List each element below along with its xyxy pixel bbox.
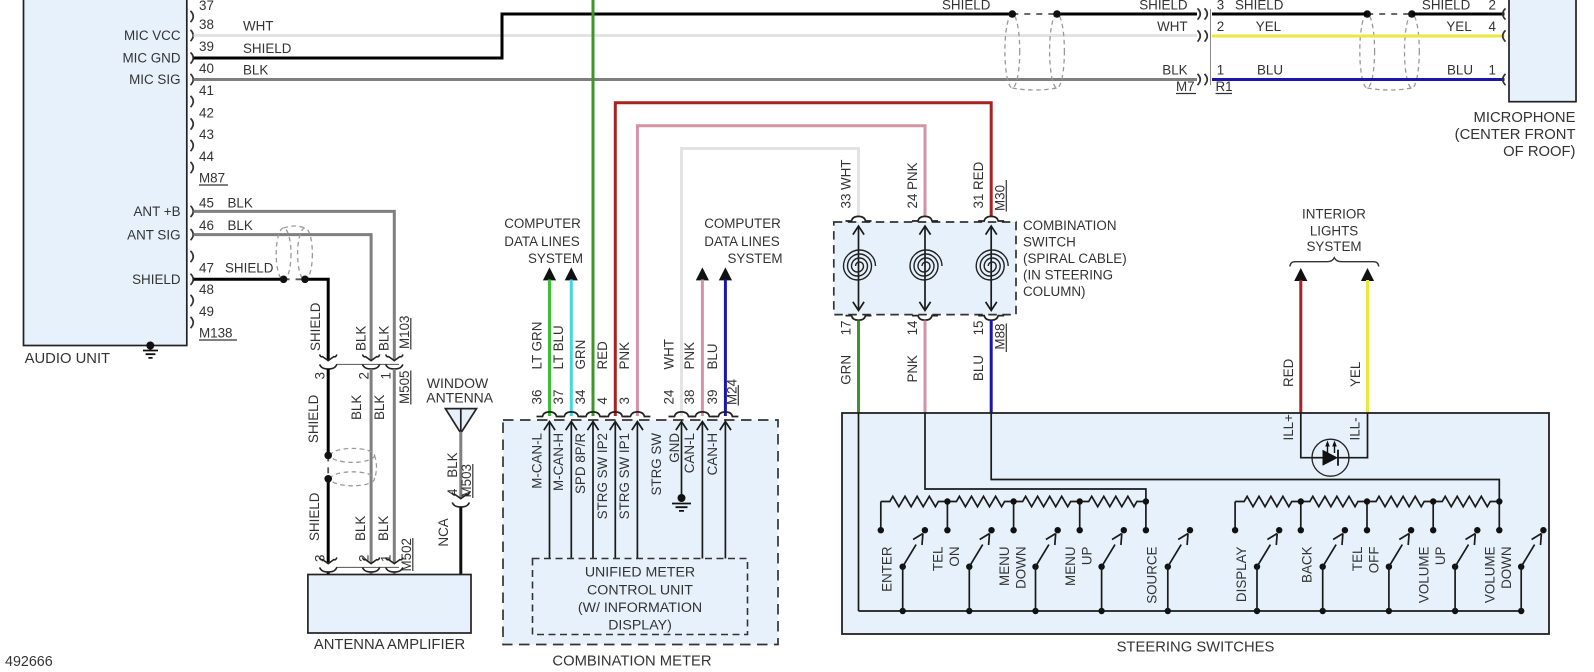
switch VOLUME DOWN bbox=[1496, 527, 1502, 533]
window antenna symbol bbox=[445, 409, 476, 434]
LED diode symbol bbox=[1323, 450, 1339, 466]
wire RED pin4 to combination switch pin31 bbox=[615, 103, 991, 416]
svg-text:RED: RED bbox=[1281, 358, 1296, 387]
wire BLK M505 to M502 pin1 bbox=[393, 369, 396, 563]
switch TEL OFF bbox=[1364, 527, 1370, 533]
LED circle bbox=[1312, 439, 1349, 476]
svg-text:CAN-L: CAN-L bbox=[682, 433, 697, 473]
shield twist symbol vertical at antenna amp bbox=[331, 448, 375, 462]
microphone box bbox=[1509, 0, 1576, 102]
svg-text:COMBINATION METER: COMBINATION METER bbox=[552, 654, 711, 670]
wire SHIELD from pin 39 up and right to M7 bbox=[194, 14, 1014, 58]
svg-text:3: 3 bbox=[1217, 0, 1224, 13]
svg-text:PNK: PNK bbox=[905, 162, 920, 190]
svg-text:BLU: BLU bbox=[705, 343, 720, 369]
PNK feed to left resistor chain bbox=[925, 413, 1146, 502]
bottom bus wire bbox=[859, 610, 1522, 612]
svg-text:VOLUME: VOLUME bbox=[1416, 546, 1431, 603]
svg-text:SHIELD: SHIELD bbox=[1139, 0, 1188, 13]
svg-text:(CENTER FRONT: (CENTER FRONT bbox=[1455, 127, 1576, 143]
shield twist symbol right pair bbox=[1360, 14, 1375, 88]
combination meter internal wires and arrows bbox=[549, 422, 551, 559]
svg-text:M-CAN-H: M-CAN-H bbox=[551, 433, 566, 491]
svg-text:CAN-H: CAN-H bbox=[705, 433, 720, 475]
svg-text:(IN STEERING: (IN STEERING bbox=[1023, 268, 1113, 283]
switch ENTER bbox=[878, 527, 884, 533]
svg-text:DATA LINES: DATA LINES bbox=[704, 234, 779, 249]
svg-text:MIC GND: MIC GND bbox=[122, 51, 180, 66]
svg-text:UP: UP bbox=[1433, 546, 1448, 565]
svg-text:BLK: BLK bbox=[228, 196, 253, 211]
svg-text:GRN: GRN bbox=[573, 340, 588, 370]
right resistor chain start bbox=[1234, 502, 1236, 531]
connector M7/R1 bbox=[1198, 8, 1201, 19]
switch VOLUME UP bbox=[1430, 527, 1436, 533]
svg-text:36: 36 bbox=[529, 390, 544, 405]
svg-text:STEERING SWITCHES: STEERING SWITCHES bbox=[1117, 640, 1275, 656]
svg-text:BLK: BLK bbox=[349, 395, 364, 420]
svg-text:BLK: BLK bbox=[1162, 63, 1187, 78]
svg-text:BACK: BACK bbox=[1300, 546, 1315, 583]
arrow to computer data lines BLU bbox=[719, 267, 732, 280]
svg-text:COMPUTER: COMPUTER bbox=[504, 216, 581, 231]
svg-text:VOLUME: VOLUME bbox=[1483, 546, 1498, 603]
svg-text:1: 1 bbox=[378, 372, 393, 379]
GRN feed into bottom bus bbox=[858, 413, 860, 611]
svg-text:SHIELD: SHIELD bbox=[243, 41, 292, 56]
svg-text:PNK: PNK bbox=[617, 342, 632, 370]
svg-text:SHIELD: SHIELD bbox=[1422, 0, 1471, 13]
wire PNK pin38 bbox=[701, 280, 704, 417]
svg-text:492666: 492666 bbox=[5, 654, 53, 670]
svg-text:UNIFIED METER: UNIFIED METER bbox=[585, 565, 695, 581]
svg-text:BLK: BLK bbox=[353, 516, 368, 541]
wire YEL to interior lights bbox=[1366, 280, 1369, 413]
svg-text:2: 2 bbox=[356, 372, 371, 379]
svg-text:OFF: OFF bbox=[1367, 547, 1382, 574]
svg-text:SHIELD: SHIELD bbox=[225, 261, 274, 276]
svg-text:SHIELD: SHIELD bbox=[942, 0, 991, 13]
svg-text:INTERIOR: INTERIOR bbox=[1302, 207, 1366, 222]
svg-text:M7: M7 bbox=[1176, 79, 1195, 94]
resistor R4 bbox=[1080, 496, 1146, 506]
svg-text:M-CAN-L: M-CAN-L bbox=[529, 433, 544, 489]
svg-text:DATA LINES: DATA LINES bbox=[504, 234, 579, 249]
svg-text:SHIELD: SHIELD bbox=[308, 302, 323, 351]
svg-text:COLUMN): COLUMN) bbox=[1023, 284, 1086, 299]
svg-text:SYSTEM: SYSTEM bbox=[528, 251, 583, 266]
wire BLK from pin 46 bbox=[194, 235, 372, 361]
svg-text:37: 37 bbox=[199, 0, 214, 13]
svg-text:WHT: WHT bbox=[1157, 19, 1188, 34]
svg-text:38: 38 bbox=[199, 17, 214, 32]
arrow to computer data lines PNK bbox=[696, 267, 709, 280]
wire YEL R1 to microphone bbox=[1212, 35, 1505, 38]
svg-text:OF ROOF): OF ROOF) bbox=[1503, 144, 1575, 160]
svg-text:PNK: PNK bbox=[682, 342, 697, 370]
wire BLK M505 to M502 pin2 bbox=[370, 369, 373, 563]
svg-text:M503: M503 bbox=[459, 464, 474, 498]
switch DISPLAY bbox=[1232, 527, 1238, 533]
svg-text:GRN: GRN bbox=[838, 355, 853, 385]
svg-text:17: 17 bbox=[838, 321, 853, 336]
svg-text:(SPIRAL CABLE): (SPIRAL CABLE) bbox=[1023, 251, 1127, 266]
svg-text:1: 1 bbox=[1217, 63, 1224, 78]
wire LT GRN pin36 bbox=[548, 280, 551, 417]
wire GRN pin34 vertical bbox=[592, 0, 595, 416]
svg-text:TEL: TEL bbox=[1350, 547, 1365, 572]
switch TEL ON bbox=[944, 527, 950, 533]
svg-text:1: 1 bbox=[1489, 63, 1496, 78]
svg-text:43: 43 bbox=[199, 127, 214, 142]
svg-text:M505: M505 bbox=[397, 371, 412, 405]
svg-text:WHT: WHT bbox=[243, 19, 274, 34]
svg-text:MIC VCC: MIC VCC bbox=[124, 28, 181, 43]
svg-text:YEL: YEL bbox=[1446, 19, 1471, 34]
svg-text:42: 42 bbox=[199, 106, 214, 121]
svg-text:DISPLAY: DISPLAY bbox=[1234, 546, 1249, 602]
svg-text:SYSTEM: SYSTEM bbox=[727, 251, 782, 266]
svg-text:BLK: BLK bbox=[243, 63, 268, 78]
svg-text:RED: RED bbox=[971, 161, 986, 190]
unified meter control unit box bbox=[533, 559, 748, 635]
svg-text:M88: M88 bbox=[992, 324, 1007, 350]
svg-text:SHIELD: SHIELD bbox=[306, 394, 321, 443]
svg-text:ENTER: ENTER bbox=[880, 546, 895, 592]
arrow interior lights RED bbox=[1294, 268, 1307, 281]
svg-text:DOWN: DOWN bbox=[1499, 547, 1514, 589]
svg-text:BLU: BLU bbox=[1257, 63, 1283, 78]
svg-text:2: 2 bbox=[1217, 19, 1224, 34]
ILL- wire to yellow bbox=[1338, 413, 1368, 458]
svg-text:SWITCH: SWITCH bbox=[1023, 235, 1076, 250]
svg-text:44: 44 bbox=[199, 149, 214, 164]
wire GRN M88 to steering switches bbox=[857, 321, 860, 413]
ground symbol at audio unit bbox=[146, 342, 154, 350]
svg-text:BLK: BLK bbox=[353, 326, 368, 351]
svg-text:STRG SW IP1: STRG SW IP1 bbox=[617, 433, 632, 519]
svg-text:24: 24 bbox=[905, 193, 920, 208]
svg-text:COMBINATION: COMBINATION bbox=[1023, 218, 1117, 233]
svg-text:COMPUTER: COMPUTER bbox=[704, 216, 781, 231]
svg-text:ON: ON bbox=[947, 547, 962, 567]
shield twist symbol at antenna wires bbox=[276, 228, 291, 280]
svg-text:4: 4 bbox=[1489, 19, 1497, 34]
steering switches box bbox=[842, 413, 1549, 634]
svg-text:LIGHTS: LIGHTS bbox=[1310, 224, 1358, 239]
ILL+ wire red into LED bbox=[1301, 413, 1312, 458]
svg-text:ANT SIG: ANT SIG bbox=[127, 227, 180, 242]
combination switch box bbox=[834, 222, 1016, 315]
svg-text:41: 41 bbox=[199, 83, 214, 98]
brace over interior lights arrows bbox=[1290, 258, 1379, 267]
wire SHIELD M505 to M502 bbox=[327, 369, 330, 455]
connector M502 bbox=[336, 566, 399, 568]
svg-text:49: 49 bbox=[199, 304, 214, 319]
resistor R5 bbox=[1235, 496, 1301, 506]
svg-text:LT GRN: LT GRN bbox=[529, 322, 544, 370]
svg-text:MENU: MENU bbox=[997, 547, 1012, 586]
svg-text:37: 37 bbox=[551, 390, 566, 405]
svg-text:CONTROL UNIT: CONTROL UNIT bbox=[587, 583, 693, 599]
svg-text:47: 47 bbox=[199, 261, 214, 276]
shield twist symbol left pair bbox=[1005, 14, 1020, 88]
svg-text:UP: UP bbox=[1079, 546, 1094, 565]
svg-text:31: 31 bbox=[971, 194, 986, 209]
svg-text:BLK: BLK bbox=[372, 395, 387, 420]
resistor R1 bbox=[881, 496, 948, 506]
svg-text:3: 3 bbox=[312, 372, 327, 379]
wire BLU R1 to microphone bbox=[1212, 78, 1505, 81]
svg-text:SPD 8P/R: SPD 8P/R bbox=[573, 433, 588, 494]
svg-text:R1: R1 bbox=[1216, 79, 1233, 94]
wire RED to interior lights bbox=[1299, 280, 1302, 413]
svg-text:40: 40 bbox=[199, 61, 214, 76]
svg-text:34: 34 bbox=[573, 389, 588, 404]
wire BLU M88 to steering switches bbox=[990, 321, 993, 413]
antenna amplifier box bbox=[308, 575, 471, 634]
ground symbol in combination meter bbox=[678, 494, 686, 502]
svg-text:48: 48 bbox=[199, 282, 214, 297]
svg-text:38: 38 bbox=[682, 390, 697, 405]
svg-text:BLK: BLK bbox=[445, 452, 460, 477]
wire BLK from pin 45 bbox=[194, 211, 395, 360]
svg-text:ANTENNA: ANTENNA bbox=[426, 389, 494, 405]
unnumbered pin arc bbox=[191, 251, 194, 262]
chain node drops bbox=[946, 502, 948, 531]
svg-text:M103: M103 bbox=[397, 316, 412, 350]
svg-text:STRG SW: STRG SW bbox=[649, 433, 664, 496]
svg-text:BLU: BLU bbox=[1447, 63, 1473, 78]
svg-text:DISPLAY): DISPLAY) bbox=[608, 618, 672, 634]
combination meter box bbox=[503, 420, 778, 645]
resistor R7 bbox=[1367, 496, 1433, 506]
svg-text:33: 33 bbox=[838, 194, 853, 209]
svg-text:ILL+: ILL+ bbox=[1281, 414, 1296, 441]
wire NCA M503 to antenna amplifier bbox=[459, 507, 462, 575]
svg-text:BLK: BLK bbox=[228, 218, 253, 233]
svg-text:ANTENNA AMPLIFIER: ANTENNA AMPLIFIER bbox=[314, 637, 465, 653]
svg-text:TEL: TEL bbox=[931, 547, 946, 572]
svg-text:DOWN: DOWN bbox=[1013, 547, 1028, 589]
svg-text:SHIELD: SHIELD bbox=[1235, 0, 1284, 13]
svg-text:M138: M138 bbox=[199, 326, 233, 341]
wire BLU pin39 bbox=[724, 280, 727, 417]
connector M505/M103 bbox=[336, 363, 399, 365]
svg-text:(W/ INFORMATION: (W/ INFORMATION bbox=[578, 600, 702, 616]
svg-text:LT BLU: LT BLU bbox=[551, 325, 566, 369]
spiral cable symbols bbox=[858, 226, 860, 311]
wire SHIELD R1 to microphone bbox=[1212, 13, 1367, 16]
BLU feed to right resistor chain bbox=[991, 413, 1499, 502]
svg-text:BLK: BLK bbox=[376, 516, 391, 541]
svg-text:M30: M30 bbox=[992, 185, 1007, 211]
svg-text:NCA: NCA bbox=[436, 518, 451, 546]
resistor R6 bbox=[1301, 496, 1367, 506]
arrow interior lights YEL bbox=[1361, 268, 1374, 281]
wire LT BLU pin37 bbox=[570, 280, 573, 417]
svg-text:PNK: PNK bbox=[905, 355, 920, 383]
audio unit U1 box bbox=[24, 0, 187, 346]
wire SHIELD from pin 47 bbox=[194, 278, 285, 281]
wire PNK M88 to steering switches bbox=[924, 321, 927, 413]
svg-text:BLU: BLU bbox=[971, 355, 986, 381]
svg-text:RED: RED bbox=[595, 341, 610, 370]
svg-text:39: 39 bbox=[199, 39, 214, 54]
svg-text:WHT: WHT bbox=[838, 160, 853, 191]
svg-text:M502: M502 bbox=[399, 538, 414, 572]
resistor R8 bbox=[1433, 496, 1499, 506]
svg-text:2: 2 bbox=[1489, 0, 1496, 13]
svg-text:M87: M87 bbox=[199, 171, 225, 186]
svg-text:15: 15 bbox=[971, 321, 986, 336]
svg-text:MENU: MENU bbox=[1063, 547, 1078, 586]
wire PNK pin3 to combination switch pin24 bbox=[637, 126, 925, 416]
switch MENU DOWN bbox=[1010, 527, 1016, 533]
resistor R3 bbox=[1014, 496, 1080, 506]
svg-text:MIC SIG: MIC SIG bbox=[129, 72, 180, 87]
wire WHT from pin 38 to M7 bbox=[194, 34, 1198, 37]
combination meter connector bumps bbox=[537, 412, 563, 417]
microphone connector arcs bbox=[1503, 8, 1506, 19]
switch MENU UP bbox=[1077, 527, 1083, 533]
wire WHT pin24 to combination switch pin33 bbox=[682, 149, 859, 417]
arrow to computer data lines LT BLU bbox=[565, 267, 578, 280]
svg-text:4: 4 bbox=[595, 397, 610, 405]
svg-text:M24: M24 bbox=[724, 378, 739, 405]
svg-text:BLK: BLK bbox=[376, 326, 391, 351]
svg-text:SYSTEM: SYSTEM bbox=[1306, 239, 1361, 254]
svg-text:SHIELD: SHIELD bbox=[132, 272, 181, 287]
combination switch connector bumps top bbox=[846, 216, 872, 221]
svg-text:46: 46 bbox=[199, 218, 214, 233]
svg-text:24: 24 bbox=[661, 389, 676, 404]
svg-text:SHIELD: SHIELD bbox=[307, 492, 322, 541]
switch BACK bbox=[1298, 527, 1304, 533]
switch SOURCE bbox=[1143, 527, 1149, 533]
svg-text:3: 3 bbox=[617, 397, 632, 404]
LED light arrows bbox=[1327, 444, 1329, 454]
left resistor chain start bbox=[880, 502, 882, 531]
svg-text:ILL-: ILL- bbox=[1347, 417, 1362, 440]
svg-text:2: 2 bbox=[356, 555, 371, 562]
svg-text:45: 45 bbox=[199, 196, 214, 211]
svg-text:YEL: YEL bbox=[1348, 362, 1363, 387]
svg-text:AUDIO UNIT: AUDIO UNIT bbox=[25, 351, 111, 367]
svg-text:4: 4 bbox=[445, 488, 460, 496]
svg-text:SOURCE: SOURCE bbox=[1145, 546, 1160, 603]
svg-text:ANT +B: ANT +B bbox=[133, 204, 180, 219]
svg-text:39: 39 bbox=[705, 390, 720, 405]
connector M503 bbox=[452, 492, 469, 498]
svg-text:STRG SW IP2: STRG SW IP2 bbox=[595, 433, 610, 519]
wire BLK antenna to M503 bbox=[459, 432, 462, 498]
combination switch connector bumps bottom bbox=[846, 316, 872, 321]
svg-text:MICROPHONE: MICROPHONE bbox=[1474, 110, 1576, 126]
svg-text:YEL: YEL bbox=[1256, 19, 1281, 34]
svg-text:WHT: WHT bbox=[661, 339, 676, 370]
svg-text:GND: GND bbox=[667, 433, 682, 463]
svg-text:14: 14 bbox=[905, 320, 920, 335]
wire BLK from pin 40 to M7 bbox=[194, 78, 1198, 81]
arrow to computer data lines LT GRN bbox=[543, 267, 556, 280]
resistor R2 bbox=[947, 496, 1013, 506]
